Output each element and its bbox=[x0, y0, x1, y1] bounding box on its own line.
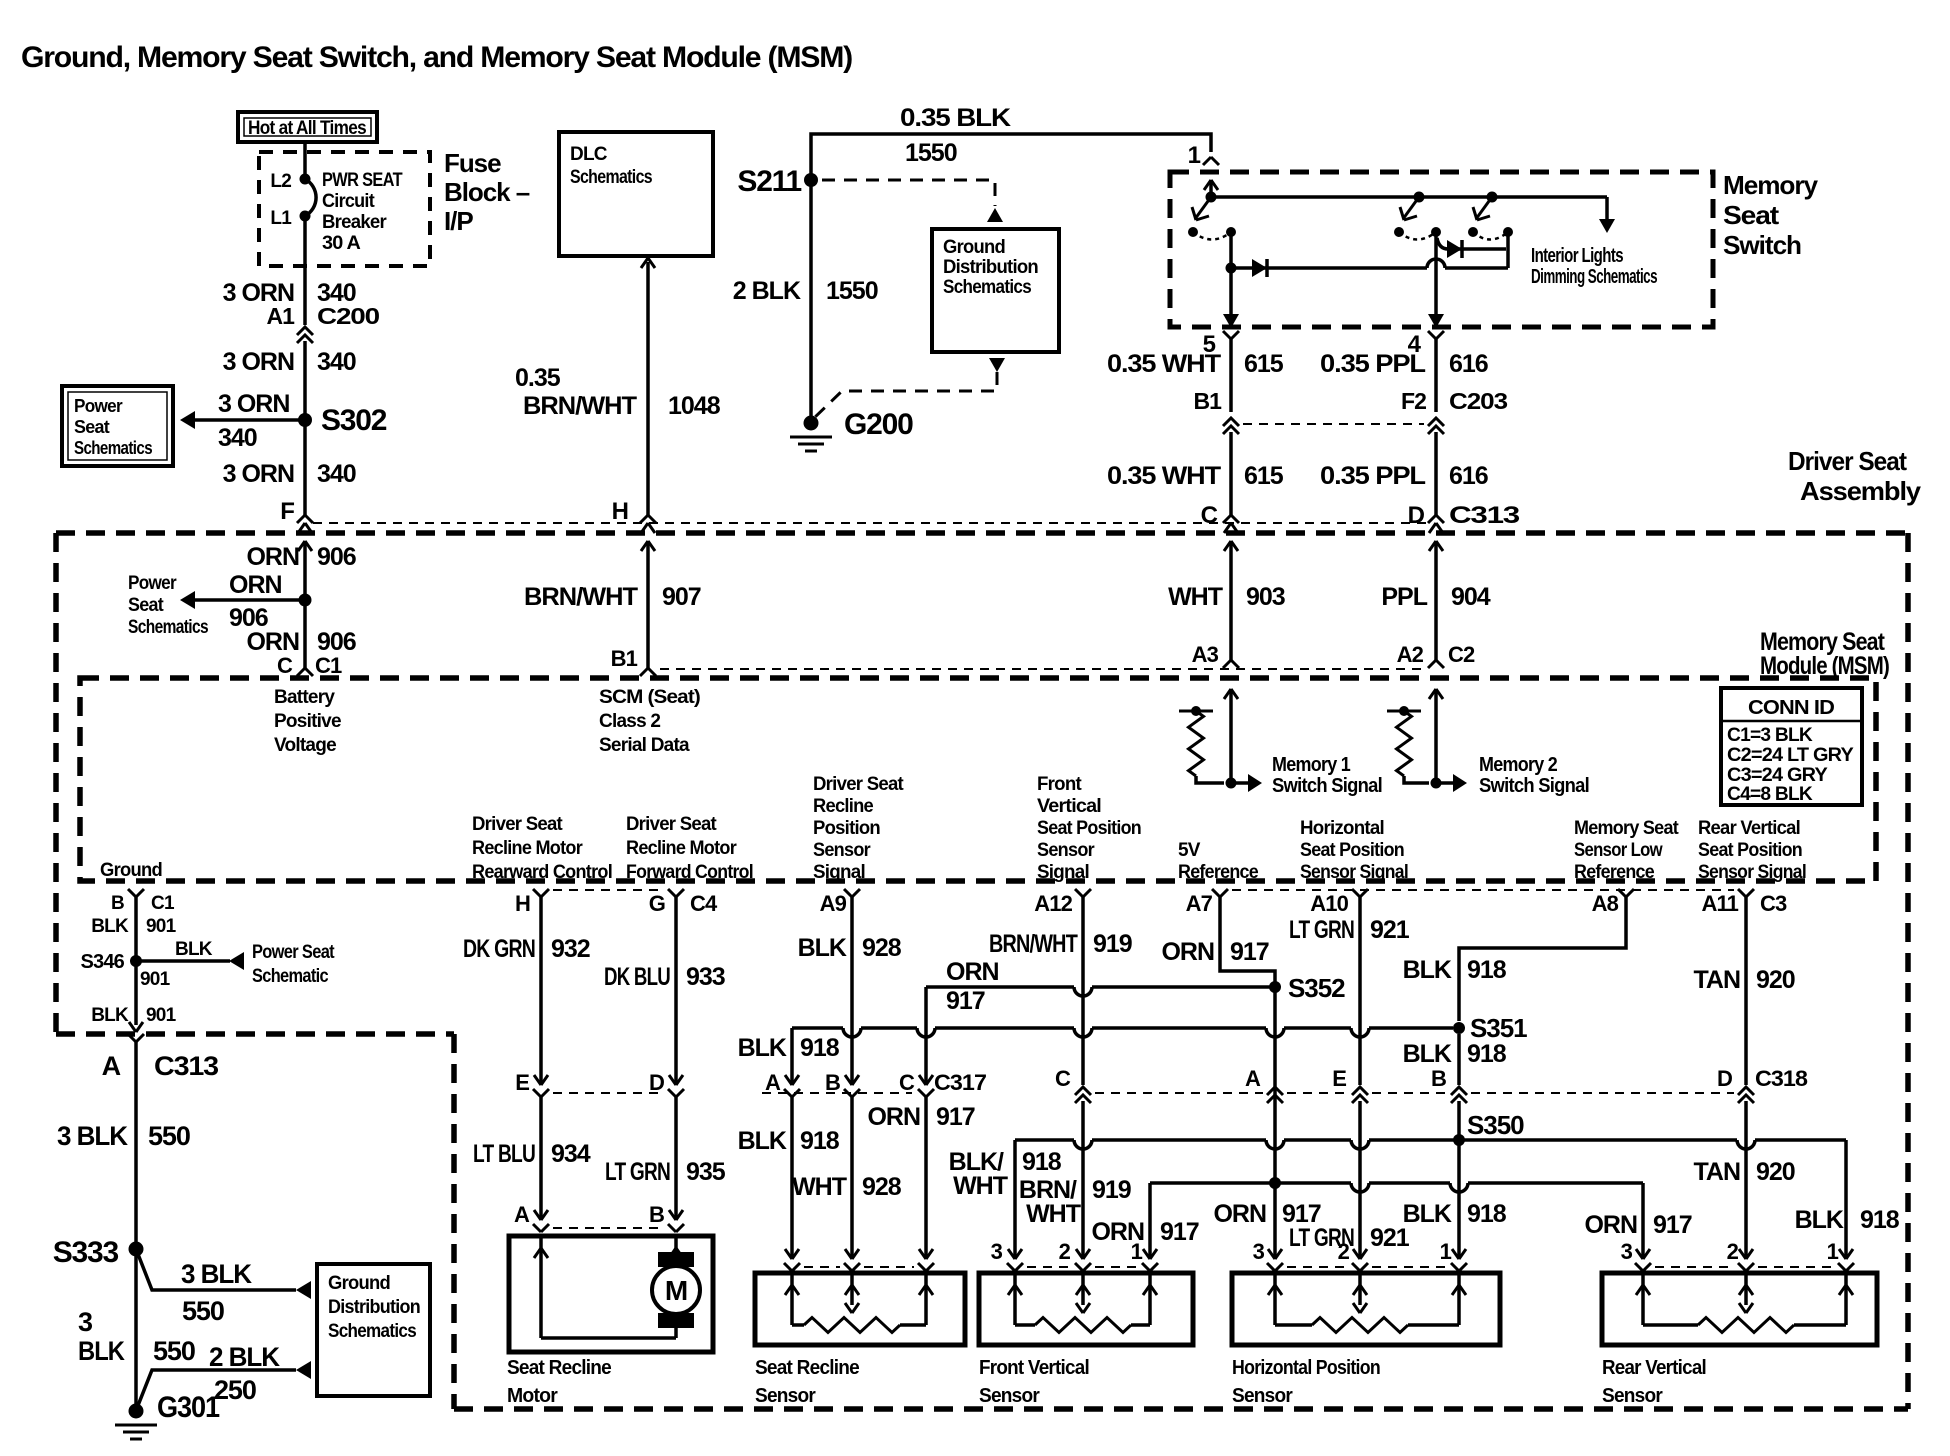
connector D bbox=[1428, 515, 1444, 523]
wire 0.35 BLK top bbox=[811, 134, 1211, 180]
svg-text:BRN/WHT: BRN/WHT bbox=[523, 392, 637, 420]
svg-text:BLK: BLK bbox=[91, 1005, 129, 1026]
svg-text:A10: A10 bbox=[1310, 891, 1348, 916]
svg-text:0.35 PPL: 0.35 PPL bbox=[1320, 462, 1426, 490]
svg-text:Ground: Ground bbox=[100, 860, 162, 881]
interior lights arrow bbox=[1605, 197, 1609, 219]
junction S302 bbox=[298, 413, 312, 427]
svg-text:2 BLK: 2 BLK bbox=[733, 277, 801, 305]
wire S302 to F bbox=[303, 420, 307, 515]
connector A C318 bbox=[1267, 1087, 1283, 1103]
svg-text:Schematics: Schematics bbox=[74, 438, 153, 458]
svg-text:PWR SEAT: PWR SEAT bbox=[322, 170, 403, 191]
svg-text:Memory 1: Memory 1 bbox=[1272, 754, 1351, 776]
wire B1 to C bbox=[1229, 432, 1233, 515]
svg-text:340: 340 bbox=[317, 348, 356, 376]
svg-text:3: 3 bbox=[991, 1239, 1003, 1264]
driver seat assembly right border bbox=[1905, 533, 1911, 1409]
switch 3 bbox=[1487, 192, 1498, 203]
svg-text:BLK: BLK bbox=[1403, 1200, 1452, 1228]
svg-text:934: 934 bbox=[551, 1140, 591, 1168]
connector row E-D thin dashed bbox=[553, 1092, 664, 1094]
svg-text:Recline Motor: Recline Motor bbox=[626, 838, 737, 859]
wire H pin to E bbox=[539, 897, 543, 1083]
svg-text:B1: B1 bbox=[1193, 388, 1222, 414]
svg-text:932: 932 bbox=[551, 935, 590, 963]
junction ORN 906 bbox=[299, 594, 312, 607]
connector A1 C200 bbox=[297, 327, 313, 343]
wire BLK 918 corner to A C317 bbox=[790, 1028, 794, 1083]
svg-text:Seat: Seat bbox=[1723, 200, 1779, 230]
svg-text:A: A bbox=[1245, 1066, 1261, 1091]
svg-text:ORN: ORN bbox=[246, 543, 299, 571]
svg-text:BLK: BLK bbox=[798, 934, 847, 962]
connector row C317 thin dashed bbox=[762, 1092, 912, 1094]
svg-text:3: 3 bbox=[1621, 1239, 1633, 1264]
svg-text:901: 901 bbox=[146, 1005, 177, 1026]
wire A7 to S352 bbox=[1220, 897, 1275, 987]
wire B C318 to S350 bbox=[1457, 1101, 1461, 1140]
svg-text:3 ORN: 3 ORN bbox=[223, 348, 294, 376]
svg-text:250: 250 bbox=[214, 1375, 256, 1405]
svg-text:C: C bbox=[1201, 502, 1218, 529]
resistor memory 2 bbox=[1387, 710, 1421, 713]
svg-text:Power Seat: Power Seat bbox=[252, 942, 335, 963]
svg-text:Reference: Reference bbox=[1574, 862, 1654, 883]
svg-text:DK GRN: DK GRN bbox=[463, 935, 535, 963]
svg-text:2: 2 bbox=[1338, 1239, 1350, 1264]
arrow S333 to ground distribution bbox=[296, 1281, 311, 1299]
svg-text:1: 1 bbox=[1188, 142, 1201, 169]
svg-text:917: 917 bbox=[1160, 1218, 1199, 1246]
connector row C313 thin dashed bbox=[313, 522, 1428, 524]
svg-text:1: 1 bbox=[1827, 1239, 1839, 1264]
wire ORN line C bbox=[1150, 1183, 1643, 1192]
svg-text:2: 2 bbox=[1727, 1239, 1739, 1264]
svg-text:550: 550 bbox=[148, 1121, 190, 1151]
svg-text:C200: C200 bbox=[317, 303, 379, 329]
arrow memory 1 switch signal bbox=[1231, 781, 1248, 785]
svg-text:LT GRN: LT GRN bbox=[1289, 916, 1354, 944]
svg-text:Power: Power bbox=[74, 396, 123, 416]
svg-text:920: 920 bbox=[1756, 966, 1795, 994]
arrow exit pin 5 bbox=[1223, 314, 1239, 328]
svg-text:Driver Seat: Driver Seat bbox=[813, 774, 904, 795]
svg-text:Schematic: Schematic bbox=[252, 966, 329, 987]
svg-text:919: 919 bbox=[1092, 1176, 1131, 1204]
svg-text:918: 918 bbox=[1860, 1206, 1900, 1234]
svg-text:903: 903 bbox=[1246, 583, 1285, 611]
svg-text:ORN: ORN bbox=[229, 571, 282, 599]
driver seat assembly top border bbox=[56, 530, 1908, 536]
svg-text:Dimming Schematics: Dimming Schematics bbox=[1531, 266, 1657, 288]
wire S352 down to horizontal pin 3 bbox=[1273, 987, 1277, 1258]
ground G301 bbox=[129, 1404, 144, 1419]
svg-text:Seat Position: Seat Position bbox=[1037, 818, 1141, 839]
svg-text:2 BLK: 2 BLK bbox=[209, 1342, 281, 1372]
pin B C1 fork bbox=[128, 889, 144, 897]
svg-text:C1=3 BLK: C1=3 BLK bbox=[1727, 725, 1813, 746]
svg-text:ORN: ORN bbox=[867, 1103, 920, 1131]
connector pin 5 fork bbox=[1223, 331, 1239, 339]
wire A12 to C C318 bbox=[1081, 897, 1085, 1085]
svg-text:BLK: BLK bbox=[1403, 1040, 1452, 1068]
connector motor B bbox=[669, 1210, 683, 1220]
svg-text:615: 615 bbox=[1244, 350, 1284, 378]
connector D C318 bbox=[1738, 1087, 1754, 1103]
svg-text:Interior Lights: Interior Lights bbox=[1531, 245, 1624, 267]
memory seat module box bbox=[80, 678, 1876, 881]
junction S351 bbox=[1453, 1022, 1465, 1034]
svg-text:Front Vertical: Front Vertical bbox=[979, 1357, 1089, 1379]
svg-text:D: D bbox=[1717, 1066, 1732, 1091]
wire S333 stub diagonal bbox=[136, 1249, 296, 1290]
wire A to recline pin A bbox=[790, 1097, 794, 1258]
svg-text:LT GRN: LT GRN bbox=[605, 1158, 670, 1186]
arrow exit pin 4 bbox=[1428, 314, 1444, 328]
connector row C318 thin dashed bbox=[1095, 1092, 1263, 1094]
wire C to A3 bbox=[1229, 541, 1233, 660]
svg-text:D: D bbox=[649, 1070, 664, 1095]
svg-text:Driver Seat: Driver Seat bbox=[472, 814, 563, 835]
wire S352 line bbox=[926, 987, 1275, 996]
wire S350 dot down to horizontal pin1 bbox=[1457, 1140, 1461, 1258]
svg-text:A9: A9 bbox=[820, 891, 847, 916]
ground G200 bbox=[804, 416, 819, 431]
svg-text:Distribution: Distribution bbox=[328, 1297, 420, 1318]
svg-text:901: 901 bbox=[140, 969, 171, 990]
svg-text:E: E bbox=[1332, 1066, 1346, 1091]
svg-text:Signal: Signal bbox=[1037, 862, 1089, 883]
wire switch rail entry bbox=[1209, 180, 1213, 197]
svg-text:2: 2 bbox=[1059, 1239, 1071, 1264]
junction line C dot bbox=[1269, 1177, 1281, 1189]
switch 2 bbox=[1414, 192, 1425, 203]
svg-text:C2=24 LT GRY: C2=24 LT GRY bbox=[1727, 745, 1854, 766]
svg-text:Driver Seat: Driver Seat bbox=[626, 814, 717, 835]
svg-text:BLK: BLK bbox=[1795, 1206, 1844, 1234]
wire to power seat schematic left bbox=[194, 598, 305, 602]
junction S352 bbox=[1269, 981, 1281, 993]
svg-text:ORN: ORN bbox=[946, 958, 999, 986]
wire S351 line bbox=[792, 1028, 1453, 1037]
wire F2 to D bbox=[1434, 432, 1438, 515]
motor M bbox=[658, 1252, 694, 1267]
connector row C4 thin dashed bbox=[553, 889, 664, 891]
connector A3 bbox=[1223, 660, 1239, 668]
svg-text:A1: A1 bbox=[266, 303, 295, 329]
svg-text:917: 917 bbox=[946, 987, 985, 1015]
connector C bbox=[1223, 515, 1239, 523]
wire pin4 to F2 bbox=[1434, 339, 1438, 412]
svg-text:SCM (Seat): SCM (Seat) bbox=[599, 687, 700, 708]
svg-text:Signal: Signal bbox=[813, 862, 865, 883]
svg-text:S211: S211 bbox=[737, 165, 801, 198]
svg-text:C1: C1 bbox=[151, 893, 175, 914]
svg-text:918: 918 bbox=[1022, 1148, 1062, 1176]
wire E to motor A bbox=[539, 1097, 543, 1218]
wire S350 line bbox=[1015, 1140, 1846, 1149]
svg-text:Schematics: Schematics bbox=[128, 617, 208, 638]
box Ground Distribution Schematics bottom bbox=[317, 1264, 430, 1396]
svg-text:Horizontal Position: Horizontal Position bbox=[1232, 1357, 1380, 1379]
wire D C318 to rear pin 2 bbox=[1744, 1101, 1748, 1258]
svg-text:901: 901 bbox=[146, 916, 177, 937]
svg-text:Switch: Switch bbox=[1723, 230, 1801, 260]
svg-text:Recline Motor: Recline Motor bbox=[472, 838, 583, 859]
svg-text:B: B bbox=[649, 1202, 664, 1227]
svg-text:TAN: TAN bbox=[1693, 966, 1740, 994]
svg-text:ORN: ORN bbox=[1213, 1200, 1266, 1228]
svg-text:A: A bbox=[102, 1051, 121, 1081]
arrow up to ground distribution box bbox=[987, 208, 1003, 222]
junction S346 bbox=[130, 955, 142, 967]
svg-text:3 ORN: 3 ORN bbox=[223, 460, 294, 488]
wire S350 right corner down bbox=[1844, 1140, 1848, 1258]
svg-text:921: 921 bbox=[1370, 1224, 1410, 1252]
svg-text:918: 918 bbox=[1467, 1200, 1507, 1228]
svg-text:DK BLU: DK BLU bbox=[604, 963, 670, 991]
wire C318 C down to front vertical pin 2 bbox=[1081, 1101, 1085, 1258]
svg-text:ORN: ORN bbox=[1584, 1211, 1637, 1239]
pin G fork bbox=[668, 889, 684, 897]
wire S346 stub bbox=[136, 959, 230, 963]
svg-text:C1: C1 bbox=[315, 653, 342, 678]
pin A10 fork bbox=[1352, 889, 1368, 897]
connector H bbox=[640, 515, 656, 523]
svg-text:Memory Seat: Memory Seat bbox=[1574, 818, 1679, 839]
connector row B1 F2 bbox=[1243, 423, 1424, 425]
svg-text:C: C bbox=[1055, 1066, 1071, 1091]
svg-text:Position: Position bbox=[813, 818, 880, 839]
svg-text:Seat: Seat bbox=[74, 417, 110, 437]
junction memory 1 bbox=[1226, 778, 1237, 789]
diode D2 bbox=[1447, 240, 1462, 258]
svg-text:Power: Power bbox=[128, 573, 177, 594]
wire switch1 contact down to pin5 bbox=[1229, 232, 1233, 314]
svg-text:C317: C317 bbox=[934, 1070, 987, 1095]
wire F to C1 bbox=[303, 541, 307, 668]
svg-text:C3=24 GRY: C3=24 GRY bbox=[1727, 765, 1828, 786]
pin A11 fork bbox=[1738, 889, 1754, 897]
svg-text:Schematics: Schematics bbox=[943, 277, 1031, 298]
circuit breaker PWR SEAT 30A bbox=[300, 174, 311, 185]
svg-text:Schematics: Schematics bbox=[328, 1321, 416, 1342]
svg-text:Rear Vertical: Rear Vertical bbox=[1698, 818, 1800, 839]
svg-text:917: 917 bbox=[936, 1103, 975, 1131]
svg-text:Sensor: Sensor bbox=[979, 1385, 1040, 1407]
svg-text:616: 616 bbox=[1449, 462, 1488, 490]
svg-text:918: 918 bbox=[800, 1127, 840, 1155]
svg-text:A11: A11 bbox=[1701, 891, 1738, 916]
svg-text:C4=8 BLK: C4=8 BLK bbox=[1727, 784, 1813, 805]
svg-text:C313: C313 bbox=[1449, 502, 1520, 529]
svg-text:340: 340 bbox=[317, 460, 356, 488]
box Power Seat Schematics bbox=[62, 386, 173, 466]
svg-text:Front: Front bbox=[1037, 774, 1082, 795]
svg-text:G: G bbox=[649, 891, 665, 916]
svg-text:Seat Recline: Seat Recline bbox=[507, 1357, 612, 1379]
svg-text:WHT: WHT bbox=[953, 1172, 1008, 1200]
wire D to A2 bbox=[1434, 541, 1438, 660]
svg-text:ORN: ORN bbox=[1161, 938, 1214, 966]
connector E C318 bbox=[1352, 1087, 1368, 1103]
rear vertical sensor bbox=[1655, 1266, 1734, 1268]
horizontal position sensor bbox=[1287, 1266, 1348, 1268]
wire S302 to Power Seat Schematics bbox=[194, 418, 305, 422]
svg-text:H: H bbox=[612, 498, 628, 525]
connector A C313 bbox=[129, 1022, 143, 1032]
svg-text:D: D bbox=[1408, 502, 1425, 529]
svg-text:Switch Signal: Switch Signal bbox=[1272, 775, 1382, 797]
svg-text:B: B bbox=[111, 893, 124, 914]
svg-text:Ground: Ground bbox=[943, 237, 1005, 258]
connector C C318 bbox=[1075, 1087, 1091, 1103]
svg-text:S346: S346 bbox=[80, 951, 124, 973]
svg-text:S302: S302 bbox=[321, 404, 387, 437]
svg-text:30 A: 30 A bbox=[322, 233, 361, 254]
connector pin 1 bbox=[1203, 157, 1219, 165]
connector B C318 bbox=[1451, 1087, 1467, 1103]
conn id table bbox=[1721, 688, 1862, 805]
arrow G301 to ground distribution bbox=[296, 1361, 311, 1379]
arrow from power seat schematic bbox=[229, 952, 244, 970]
wire A9 to B C317 bbox=[850, 897, 854, 1083]
wire B to recline pin B bbox=[850, 1097, 854, 1258]
svg-text:906: 906 bbox=[317, 543, 356, 571]
wire G301 stub diagonal bbox=[137, 1370, 296, 1408]
wire line C left corner down bbox=[1148, 1183, 1152, 1258]
svg-text:Fuse: Fuse bbox=[444, 148, 501, 178]
svg-text:BRN/WHT: BRN/WHT bbox=[524, 583, 638, 611]
svg-text:Voltage: Voltage bbox=[274, 735, 336, 756]
svg-text:C203: C203 bbox=[1449, 388, 1507, 414]
wire ORN down to C C317 bbox=[924, 987, 928, 1083]
svg-text:WHT: WHT bbox=[792, 1173, 847, 1201]
svg-text:C3: C3 bbox=[1760, 891, 1787, 916]
resistor memory 1 bbox=[1179, 710, 1213, 713]
svg-text:Sensor: Sensor bbox=[1232, 1385, 1293, 1407]
connector row C3 thin dashed bbox=[1232, 889, 1734, 891]
svg-text:BLK: BLK bbox=[1403, 956, 1452, 984]
svg-text:340: 340 bbox=[218, 424, 257, 452]
svg-text:A: A bbox=[514, 1202, 530, 1227]
wire S350 left corner down bbox=[1013, 1140, 1017, 1258]
svg-text:Recline: Recline bbox=[813, 796, 873, 817]
connector B C317 bbox=[845, 1075, 859, 1085]
box Ground Distribution Schematics top bbox=[932, 229, 1059, 352]
pin A12 fork bbox=[1075, 889, 1091, 897]
svg-text:Sensor Signal: Sensor Signal bbox=[1300, 862, 1408, 883]
wire A2 to memory2 junction bbox=[1434, 689, 1438, 783]
svg-text:921: 921 bbox=[1370, 916, 1410, 944]
svg-text:H: H bbox=[515, 891, 530, 916]
svg-text:616: 616 bbox=[1449, 350, 1488, 378]
svg-text:Seat Position: Seat Position bbox=[1698, 840, 1802, 861]
svg-text:0.35 PPL: 0.35 PPL bbox=[1320, 350, 1426, 378]
svg-text:G301: G301 bbox=[157, 1391, 219, 1424]
connector F bbox=[297, 515, 313, 523]
svg-text:917: 917 bbox=[1230, 938, 1269, 966]
svg-text:Positive: Positive bbox=[274, 711, 341, 732]
svg-text:3 BLK: 3 BLK bbox=[57, 1121, 129, 1151]
svg-text:BRN/WHT: BRN/WHT bbox=[989, 930, 1078, 958]
wire D to motor B bbox=[674, 1097, 678, 1218]
wire E C318 down to horizontal pin 2 bbox=[1358, 1101, 1362, 1258]
svg-text:B: B bbox=[825, 1070, 840, 1095]
wire pin5 to B1 bbox=[1229, 339, 1233, 412]
svg-text:Memory 2: Memory 2 bbox=[1479, 754, 1558, 776]
svg-text:A8: A8 bbox=[1592, 891, 1619, 916]
svg-text:918: 918 bbox=[1467, 1040, 1507, 1068]
svg-text:S333: S333 bbox=[53, 1236, 119, 1269]
svg-text:Sensor: Sensor bbox=[1602, 1385, 1663, 1407]
svg-text:Vertical: Vertical bbox=[1037, 796, 1101, 817]
svg-text:Schematics: Schematics bbox=[570, 167, 652, 188]
junction diode line bbox=[1226, 263, 1237, 274]
connector motor A bbox=[534, 1210, 548, 1220]
wire S346 to A C313 bbox=[134, 961, 138, 1025]
svg-text:918: 918 bbox=[800, 1034, 840, 1062]
wire B to S346 bbox=[134, 897, 138, 961]
svg-text:Module (MSM): Module (MSM) bbox=[1760, 652, 1890, 680]
svg-text:Ground: Ground bbox=[328, 1273, 390, 1294]
diode line 2 bbox=[1437, 238, 1506, 249]
svg-text:1550: 1550 bbox=[905, 139, 957, 167]
pin A8 fork bbox=[1618, 889, 1634, 897]
svg-text:C313: C313 bbox=[154, 1051, 219, 1081]
wire G pin to D bbox=[674, 897, 678, 1083]
svg-text:0.35 BLK: 0.35 BLK bbox=[900, 104, 1011, 132]
svg-text:Seat Recline: Seat Recline bbox=[755, 1357, 860, 1379]
svg-text:928: 928 bbox=[862, 1173, 902, 1201]
connector C C317 bbox=[919, 1075, 933, 1085]
box Hot at All Times bbox=[238, 112, 377, 142]
svg-text:1048: 1048 bbox=[668, 392, 721, 420]
junction S211 bbox=[804, 173, 818, 187]
box DLC Schematics bbox=[559, 132, 713, 256]
arrow memory 2 switch signal bbox=[1436, 781, 1453, 785]
svg-text:615: 615 bbox=[1244, 462, 1284, 490]
svg-text:904: 904 bbox=[1451, 583, 1491, 611]
svg-text:Memory: Memory bbox=[1723, 170, 1819, 200]
svg-text:928: 928 bbox=[862, 934, 902, 962]
svg-text:Sensor: Sensor bbox=[1037, 840, 1095, 861]
memory seat switch dashed box bbox=[1170, 172, 1713, 327]
svg-text:Breaker: Breaker bbox=[322, 212, 387, 233]
connector C C1 bbox=[297, 668, 313, 676]
svg-text:F2: F2 bbox=[1401, 388, 1426, 414]
svg-text:1550: 1550 bbox=[826, 277, 878, 305]
svg-text:907: 907 bbox=[662, 583, 701, 611]
pin H fork bbox=[533, 889, 549, 897]
svg-text:1: 1 bbox=[1131, 1239, 1143, 1264]
svg-text:WHT: WHT bbox=[1026, 1200, 1081, 1228]
svg-text:L1: L1 bbox=[270, 208, 292, 229]
svg-text:TAN: TAN bbox=[1693, 1158, 1740, 1186]
svg-text:919: 919 bbox=[1093, 930, 1132, 958]
wire S351 to B C318 bbox=[1457, 1034, 1461, 1085]
svg-text:Reference: Reference bbox=[1178, 862, 1258, 883]
svg-text:Ground, Memory Seat Switch, an: Ground, Memory Seat Switch, and Memory S… bbox=[21, 41, 852, 74]
wire A1 to S302 bbox=[303, 341, 307, 420]
svg-text:3 BLK: 3 BLK bbox=[181, 1259, 253, 1289]
svg-text:3: 3 bbox=[1253, 1239, 1265, 1264]
svg-text:F: F bbox=[280, 498, 294, 525]
svg-text:918: 918 bbox=[1467, 956, 1507, 984]
svg-text:Seat Position: Seat Position bbox=[1300, 840, 1404, 861]
svg-text:Sensor: Sensor bbox=[755, 1385, 816, 1407]
